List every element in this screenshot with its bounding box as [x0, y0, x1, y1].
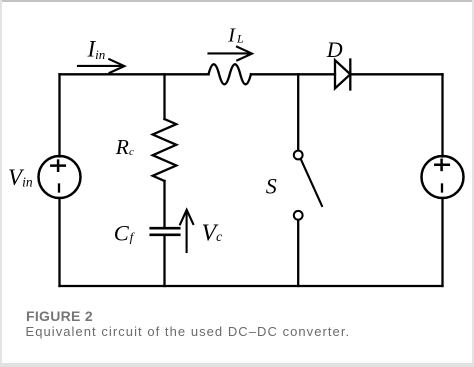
- wire top-right segment: [350, 73, 442, 75]
- svg-text:Rc: Rc: [115, 135, 134, 159]
- arrow IL: [209, 47, 253, 61]
- switch S: [294, 151, 322, 220]
- wire resistor to capacitor: [163, 181, 165, 227]
- wire left vertical lower: [58, 198, 60, 286]
- wire top-left segment: [60, 73, 209, 75]
- svg-text:Vin: Vin: [8, 165, 33, 190]
- wire middle branch upper: [163, 74, 165, 119]
- source right: [422, 156, 464, 198]
- wire switch branch lower: [297, 220, 299, 286]
- wire bottom: [60, 285, 443, 287]
- diode D: [335, 60, 350, 90]
- svg-text:D: D: [326, 37, 343, 62]
- border frame: [0, 0, 474, 2]
- svg-text:IL: IL: [227, 25, 244, 47]
- arrow Iin: [78, 59, 124, 73]
- wire right vertical upper: [441, 74, 443, 156]
- svg-text:Iin: Iin: [87, 37, 106, 62]
- svg-text:S: S: [266, 173, 277, 198]
- inductor L: [209, 64, 251, 84]
- wire right vertical lower: [441, 198, 443, 286]
- arrow Vc: [180, 210, 193, 252]
- resistor Rc: [153, 119, 177, 181]
- wire top-middle segment: [251, 73, 335, 75]
- svg-text:Cf: Cf: [114, 220, 136, 245]
- svg-text:Vc: Vc: [202, 220, 223, 246]
- capacitor Cf: [151, 228, 179, 235]
- wire switch branch upper: [297, 74, 299, 150]
- caption: [0, 0, 474, 1]
- source Vin: [39, 156, 81, 198]
- wire left vertical upper: [58, 74, 60, 156]
- wire capacitor to bottom: [163, 236, 165, 286]
